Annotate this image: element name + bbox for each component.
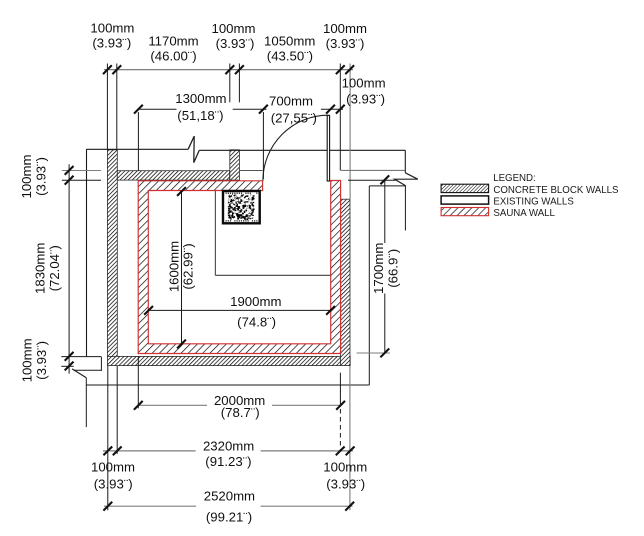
svg-text:(46.00¨): (46.00¨) <box>150 49 196 64</box>
svg-text:(3.93¨): (3.93¨) <box>326 36 365 51</box>
svg-text:(72.04¨): (72.04¨) <box>47 245 62 291</box>
svg-text:(3.93¨): (3.93¨) <box>326 476 365 491</box>
svg-text:(51,18¨): (51,18¨) <box>177 108 223 123</box>
svg-text:EXISTING WALLS: EXISTING WALLS <box>493 196 574 207</box>
svg-text:(66.9¨): (66.9¨) <box>386 249 401 288</box>
svg-text:(3.93¨): (3.93¨) <box>216 36 255 51</box>
svg-text:1900mm: 1900mm <box>230 294 281 309</box>
svg-text:100mm: 100mm <box>212 21 256 36</box>
svg-text:1830mm: 1830mm <box>32 243 47 294</box>
svg-text:(3.93¨): (3.93¨) <box>34 341 49 380</box>
svg-text:(74.8¨): (74.8¨) <box>237 315 276 330</box>
svg-text:2320mm: 2320mm <box>203 438 254 453</box>
svg-text:(27,55¨): (27,55¨) <box>271 111 317 126</box>
svg-text:100mm: 100mm <box>323 21 367 36</box>
svg-text:(91.23¨): (91.23¨) <box>205 454 251 469</box>
svg-text:700mm: 700mm <box>269 93 313 108</box>
svg-text:1700mm: 1700mm <box>371 243 386 294</box>
svg-text:2520mm: 2520mm <box>204 489 255 504</box>
svg-text:100mm: 100mm <box>323 460 367 475</box>
svg-text:LEGEND:: LEGEND: <box>493 173 536 184</box>
svg-text:100mm: 100mm <box>20 338 35 382</box>
svg-text:(3.93¨): (3.93¨) <box>94 476 133 491</box>
svg-text:1170mm: 1170mm <box>148 34 198 49</box>
svg-text:1050mm: 1050mm <box>264 34 315 49</box>
svg-text:100mm: 100mm <box>342 75 386 90</box>
svg-text:100mm: 100mm <box>19 155 34 199</box>
svg-text:SAUNA WALL: SAUNA WALL <box>493 208 555 219</box>
svg-text:(99.21¨): (99.21¨) <box>206 509 252 524</box>
svg-text:(3.93¨): (3.93¨) <box>34 157 49 196</box>
svg-text:1600mm: 1600mm <box>166 241 181 292</box>
svg-text:100mm: 100mm <box>91 460 135 475</box>
svg-text:(43.50¨): (43.50¨) <box>267 49 313 64</box>
svg-text:(3.93¨): (3.93¨) <box>92 36 131 51</box>
svg-text:1300mm: 1300mm <box>175 91 226 106</box>
svg-text:(3.93¨): (3.93¨) <box>346 92 385 107</box>
svg-text:(78.7¨): (78.7¨) <box>221 405 260 420</box>
svg-text:100mm: 100mm <box>90 21 134 36</box>
svg-text:(62.99¨): (62.99¨) <box>181 243 196 289</box>
svg-text:CONCRETE BLOCK WALLS: CONCRETE BLOCK WALLS <box>493 185 619 196</box>
